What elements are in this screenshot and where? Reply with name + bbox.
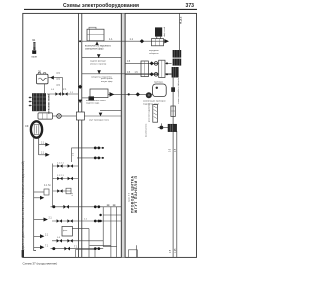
svg-text:передние: передние <box>149 50 159 52</box>
ground box (bottom, x75-95) <box>76 250 96 258</box>
harness label column (right, rotated) <box>177 78 179 105</box>
caption text (under box) <box>85 46 112 51</box>
lamp E4 (circle y63.4) <box>154 62 158 66</box>
wire: left riser x52.6 <box>53 164 54 208</box>
svg-text:комбинация приборов: комбинация приборов <box>143 101 166 103</box>
wire: row y94.4 to instrument box <box>108 93 153 95</box>
wire: center-bottom riser x103.2 <box>102 207 104 247</box>
svg-text:МОДЕЛИ С ДВИГАТЕЛЯМИ 4A-FE И 7: МОДЕЛИ С ДВИГАТЕЛЯМИ 4A-FE И 7A-FE (СХЕМ… <box>21 161 25 254</box>
svg-text:373: 373 <box>186 3 195 9</box>
svg-text:1.1: 1.1 <box>130 38 134 41</box>
wire: short row y110.6 to bus B <box>100 110 121 112</box>
wire: center-bottom riser x110.9 <box>110 207 112 257</box>
wire: generator output to right <box>48 77 63 79</box>
frame corner mark (bottom left) <box>22 250 24 257</box>
wire: generator box down to ignition switch <box>44 84 46 93</box>
ignition switch label column <box>47 94 50 114</box>
svg-text:С9: С9 <box>25 124 29 128</box>
relay box K2 (x90-108) <box>90 78 113 98</box>
svg-text:А.З.+: А.З.+ <box>178 16 183 24</box>
wire: oval connector down-left leg <box>34 137 36 250</box>
wire: box to bus B (y116) <box>84 115 121 117</box>
svg-text:1.25: 1.25 <box>175 248 177 253</box>
wire: branch with connector (y144) <box>39 142 50 146</box>
connector diamond on bus A (y87) <box>78 85 82 89</box>
caption column (left of switch, rotated) <box>145 123 147 137</box>
svg-text:реостат подсветки: реостат подсветки <box>149 103 151 122</box>
label block (y183) <box>44 184 51 187</box>
svg-text:2.1 2.1: 2.1 2.1 <box>57 162 64 164</box>
wire: row y157.9 with connector pair <box>77 157 104 160</box>
wire: row y215 to bus B <box>99 214 121 216</box>
connector arrow (y236) <box>34 234 49 238</box>
wire: fuse block to lighter to bus A <box>53 115 77 117</box>
svg-text:заднего хода: заднего хода <box>86 103 100 105</box>
svg-text:вотум. фар: вотум. фар <box>101 80 113 83</box>
wire: row y74.3 bus B to relays <box>125 72 172 74</box>
relay block K4 (dark) <box>173 59 182 66</box>
connector block X4 (vertical rect, right rows) <box>159 60 165 77</box>
relay K1 (dark, above y41 row) <box>155 27 166 39</box>
fuse block F1 (small box row) <box>38 113 53 119</box>
wire: right vertical harness 1 <box>172 74 174 257</box>
connector arrow (y219) <box>34 218 53 222</box>
instrument cluster U2 (rounded box) <box>153 82 167 97</box>
connector diamond (y63.4) <box>150 61 154 65</box>
net label A.3+ (rotated) <box>178 16 183 24</box>
wire row y240.8 <box>52 237 103 242</box>
ignition switch S1 (dark contact block) <box>32 93 46 111</box>
caption (under y73.8) <box>91 77 113 79</box>
svg-text:жгут проводов пола: жгут проводов пола <box>89 120 110 122</box>
ground arrow (on y116 wire) <box>99 113 103 117</box>
connector arrow (y247) <box>34 245 49 249</box>
svg-text:освещения (фар): освещения (фар) <box>85 47 104 50</box>
bus B (center harness, double line with gray core) <box>121 14 125 258</box>
connector block X2 (vertical rect across rows) <box>141 61 148 77</box>
wire size labels column (0.5 marks) <box>57 72 67 91</box>
wire: ignition to bus A row y94 <box>47 89 78 96</box>
header rule <box>24 8 197 10</box>
wire: row y147.9 with connector pair <box>72 147 104 163</box>
wire: right feed vertical (top) <box>179 14 181 51</box>
svg-text:приборы: приборы <box>154 82 163 84</box>
svg-text:пров. 0.5: пров. 0.5 <box>128 192 130 202</box>
svg-text:замок зажигания: замок зажигания <box>47 94 50 114</box>
relay block K5 (dark) <box>172 67 179 78</box>
resistor R1 (on right line) <box>171 106 175 117</box>
wire: row y57.7 bus A to bus B <box>82 57 122 59</box>
wire row y219.3 (to bus B) <box>52 219 121 223</box>
page background <box>0 0 200 284</box>
connector box X3 (dark, y124-132) <box>168 124 177 131</box>
wire label 1.1 (left) <box>109 38 113 41</box>
svg-text:провода соединительные: провода соединительные <box>177 78 179 105</box>
panel box U3 (tall hatched) <box>149 103 158 123</box>
wire row y250.8 <box>51 245 104 250</box>
junction dot (row y221) <box>99 220 101 222</box>
lamp G2 (dark circle) <box>146 92 152 98</box>
wire row y191 with connector <box>53 188 74 196</box>
cigarette lighter E2 (circle) <box>57 114 61 118</box>
header page number 373 <box>186 3 195 9</box>
harness caption (right of bus B, dark rotated text) <box>128 175 138 214</box>
tick labels on row y206.8 <box>107 205 116 206</box>
svg-text:выключатель наружного: выключатель наружного <box>85 46 112 48</box>
connector arrow (right of relay box) <box>110 92 115 97</box>
caption (above right rows) <box>149 50 159 55</box>
svg-text:пров: пров <box>32 56 38 59</box>
svg-text:Схемы электрооборудования: Схемы электрооборудования <box>63 2 139 9</box>
caption (above y116 wire) <box>86 100 106 105</box>
connector diamond (y74.3) <box>150 72 154 76</box>
svg-text:габариты: габариты <box>149 53 159 55</box>
ground box (bottom, x128-137) <box>129 250 138 257</box>
svg-text:ЖГУТ ПАНЕЛИ П: ЖГУТ ПАНЕЛИ П <box>134 175 138 214</box>
junction dot on bus B (y94.4) <box>128 93 130 95</box>
dark terminal (box corner) <box>89 96 95 100</box>
connector grommet C1 (oval) <box>25 121 42 137</box>
connector arrow (on generator wire) <box>50 76 54 80</box>
wire: row y63.4 bus B to relays <box>125 61 172 63</box>
fuse box F2 (on y41 row) <box>152 39 164 46</box>
ignition switch terminal pins <box>29 97 32 107</box>
wire row y166 with twin connectors <box>54 162 78 167</box>
svg-text:задние фонари: задние фонари <box>90 60 106 63</box>
connector arrow (y197) <box>34 196 45 200</box>
wire: row y73.8 bus A to right column <box>82 73 172 75</box>
ground arrow (on bus A y100) <box>78 100 82 104</box>
caption rows (y100-104) <box>143 101 166 106</box>
connector arrow (end of y41 row) <box>164 39 169 43</box>
wire: down from generator wire <box>62 78 64 94</box>
diagram border frame <box>23 13 197 257</box>
wire: oval connector down-right leg <box>38 137 40 155</box>
header title: Схемы электрооборудования <box>63 2 139 9</box>
switch S2 (dot with pins, y127.5) <box>158 123 168 129</box>
svg-text:4.1 бл: 4.1 бл <box>44 184 51 187</box>
wire: row y97.9 bus A under relay box <box>82 97 90 99</box>
wire gauge marks 0.5 (x172 y250) <box>170 248 177 253</box>
svg-text:выключатель: выключатель <box>145 123 147 137</box>
svg-text:реле фар: реле фар <box>163 27 166 37</box>
connector diamond (y94.4) <box>136 92 140 96</box>
junction box on bus A <box>76 112 84 120</box>
junction box J1 (small box y189) <box>34 189 49 195</box>
wire: main feed row y41 <box>82 40 168 42</box>
caption (below y116 wire) <box>89 120 110 122</box>
generator G1 (box with wave) <box>37 70 49 84</box>
svg-text:2.1 2.1: 2.1 2.1 <box>57 175 64 177</box>
relay block K3 (dark, right side top) <box>173 50 182 58</box>
ground arrow (below box) <box>95 41 98 45</box>
svg-text:1.1: 1.1 <box>109 38 113 41</box>
wire: center-bottom riser x115.9 <box>103 207 116 257</box>
connector X1 (small vertical plug, top-left) <box>32 38 38 59</box>
wire gauge marks 0.5 (x172 y148) <box>170 148 177 152</box>
wire row y206.8 (long, to center) <box>51 205 122 209</box>
junction dot (bus A y41) <box>79 40 81 42</box>
svg-text:(левая сторона): (левая сторона) <box>90 63 107 65</box>
label 0.5 (vertical, near x74) <box>73 152 75 156</box>
wire: right vertical harness 2 <box>176 131 178 257</box>
lamp E5 (circle y74.3) <box>154 73 158 77</box>
ground arrow (y73.8 row) <box>97 70 101 74</box>
inline connector (dark, right line y88) <box>171 87 175 92</box>
fusible link (arrow up on y57.7) <box>97 54 101 58</box>
bottom caption: Схема 37 (продолжение) <box>23 262 58 266</box>
caption (under y57.7) <box>90 60 107 66</box>
side caption (models note, rotated) <box>21 161 25 254</box>
bus A (left harness, double line) <box>78 14 81 258</box>
lamp box E3 (y227) <box>62 226 89 257</box>
svg-text:реле проти-: реле проти- <box>101 78 113 80</box>
light switch box U1 (top center) <box>87 27 104 41</box>
connector diamond (y41 row) <box>140 39 145 43</box>
wire label 1.1 (right of bus B) <box>130 38 134 41</box>
wire: branch with connector (y154) <box>39 153 50 157</box>
ground bus box (bottom center) <box>90 245 137 257</box>
svg-text:Э1: Э1 <box>32 38 36 42</box>
wire row y178.5 with twin connectors <box>54 175 78 180</box>
junction dots (rows to relay blocks) <box>166 62 168 75</box>
svg-text:Схема 37 (продолжение): Схема 37 (продолжение) <box>23 262 58 266</box>
